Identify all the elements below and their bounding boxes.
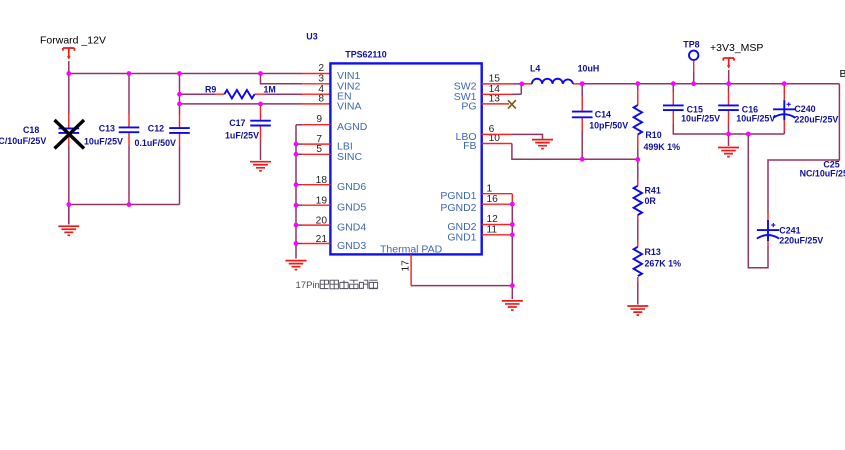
svg-text:B: B (840, 68, 845, 80)
resistor R13 (634, 242, 642, 283)
capacitor C15 (663, 84, 684, 124)
svg-text:13: 13 (489, 94, 501, 105)
svg-text:PGND2: PGND2 (440, 202, 476, 214)
svg-text:0R: 0R (645, 196, 657, 206)
ground under C16 (718, 148, 739, 157)
svg-text:16: 16 (487, 194, 499, 205)
svg-text:5: 5 (316, 144, 322, 155)
wire top VIN rail (69, 73, 302, 75)
svg-text:TPS62110: TPS62110 (345, 50, 387, 60)
no-stuff X over C18 (55, 120, 85, 149)
ground under AGND bus (286, 261, 307, 270)
svg-text:0.1uF/50V: 0.1uF/50V (135, 138, 177, 148)
capacitor C16 (718, 84, 739, 134)
wire caps bottom rail (673, 123, 784, 134)
capacitor C240 (polarized) (773, 84, 795, 134)
svg-text:17: 17 (401, 260, 412, 272)
wire GND6 stub (296, 184, 303, 186)
svg-text:3: 3 (318, 74, 324, 85)
svg-text:1uF/25V: 1uF/25V (225, 130, 259, 140)
capacitor C14 (572, 84, 593, 160)
wire C12 bottom (179, 146, 181, 205)
pin 6 LBO (482, 133, 512, 135)
wire R10 to R41 (637, 160, 639, 181)
pin numbers left (316, 63, 328, 245)
svg-text:C14: C14 (595, 110, 611, 120)
pin numbers right (487, 74, 501, 236)
wire R13 to ground (637, 282, 639, 305)
svg-text:NC/10uF/25V: NC/10uF/25V (0, 136, 46, 146)
svg-text:1M: 1M (264, 85, 276, 95)
svg-text:TP8: TP8 (683, 39, 699, 49)
svg-text:267K 1%: 267K 1% (645, 259, 682, 269)
wire bottom-left ground rail (69, 204, 180, 206)
svg-text:PG: PG (461, 100, 476, 112)
wire R9 to EN (266, 93, 302, 95)
svg-text:+3V3_MSP: +3V3_MSP (710, 42, 763, 54)
wire PGND bus (511, 204, 513, 299)
pin names right (440, 80, 476, 243)
pin 8 VINA (302, 103, 330, 105)
svg-text:PGND1: PGND1 (440, 190, 476, 202)
svg-text:17Pin: 17Pin (296, 280, 320, 291)
svg-text:220uF/25V: 220uF/25V (779, 236, 823, 246)
wire GND5 stub (296, 204, 303, 206)
capacitor C18 (59, 114, 80, 146)
no-connect X on PG (508, 100, 516, 108)
svg-text:Forward _12V: Forward _12V (40, 34, 106, 46)
pin 11 GND1 (482, 234, 513, 236)
pin 3 VIN2 (302, 83, 330, 85)
wire C13 bottom (128, 146, 130, 205)
svg-text:10uH: 10uH (578, 64, 600, 74)
svg-text:GND1: GND1 (447, 231, 476, 243)
resistor R41 (634, 181, 642, 221)
svg-text:GND6: GND6 (337, 181, 366, 193)
ground under C17 (250, 162, 271, 171)
ground under C18 rail (58, 226, 79, 235)
pin 1 PGND1 (482, 194, 513, 205)
pin 19 GND5 (303, 204, 331, 206)
wire C17 to ground (260, 139, 262, 160)
wire LBI stub (296, 143, 303, 145)
pin names left (337, 70, 368, 252)
wire C13 column upper (128, 74, 130, 115)
svg-text:10uF/25V: 10uF/25V (736, 113, 775, 123)
svg-text:C17: C17 (229, 118, 245, 128)
svg-text:11: 11 (487, 225, 498, 236)
svg-text:R10: R10 (645, 130, 661, 140)
wire AGND bus (296, 125, 303, 259)
svg-text:R9: R9 (205, 85, 216, 95)
pin 15 SW2 (482, 83, 513, 85)
wire LBO to ground (512, 134, 543, 139)
wire C18 bottom (68, 146, 70, 224)
pin 5 SINC (303, 153, 331, 155)
capacitor C12 (169, 114, 190, 146)
svg-text:Thermal PAD: Thermal PAD (380, 244, 443, 256)
ground under R13 (627, 306, 648, 315)
svg-text:10uF/25V: 10uF/25V (84, 137, 123, 147)
svg-text:NC/10uF/25V: NC/10uF/25V (800, 169, 845, 179)
svg-text:C241: C241 (779, 225, 800, 235)
wire SINC stub (296, 153, 303, 155)
pin 4 EN (302, 93, 330, 95)
wire output rail (582, 83, 839, 85)
pin 18 GND6 (303, 184, 331, 186)
power symbol +3V3_MSP (723, 58, 734, 84)
svg-text:15: 15 (489, 74, 501, 85)
svg-text:C12: C12 (148, 124, 164, 134)
wire R9 row (180, 93, 216, 95)
resistor R10 (634, 84, 642, 160)
wire GND3 stub (296, 243, 303, 245)
pin 20 GND4 (303, 224, 331, 226)
svg-text:U3: U3 (306, 32, 317, 42)
power symbol Forward _12V (63, 48, 74, 60)
svg-text:1: 1 (487, 183, 493, 194)
pin 2 VIN1 (302, 73, 330, 75)
resistor R9 (215, 90, 266, 98)
pin 10 FB (482, 143, 512, 145)
wire thermal pad to bus (411, 285, 512, 287)
pin 7 LBI (303, 143, 331, 145)
wire Forward_12V vertical into rail (68, 61, 70, 114)
wire B branch down right edge (768, 84, 839, 214)
IC U3 TPS62110 body (330, 63, 481, 254)
svg-text:220uF/25V: 220uF/25V (794, 114, 838, 124)
pin 13 PG (482, 103, 509, 105)
svg-text:GND5: GND5 (337, 202, 366, 214)
pin 14 SW1 (482, 93, 513, 95)
wire C16 to ground (728, 134, 730, 146)
capacitor C17 (250, 104, 271, 139)
wire C12/R9 column upper (179, 74, 181, 115)
svg-text:8: 8 (318, 94, 324, 105)
svg-text:FB: FB (463, 140, 476, 152)
wire C18 to ground (68, 205, 70, 225)
svg-text:AGND: AGND (337, 121, 368, 133)
svg-text:9: 9 (316, 114, 322, 125)
svg-text:10pF/50V: 10pF/50V (589, 121, 628, 131)
wire C241 return loop (748, 134, 768, 268)
ground under PGND bus (502, 301, 523, 310)
test point TP8 (689, 51, 698, 84)
inductor L4 (522, 79, 582, 84)
svg-text:VINA: VINA (337, 100, 362, 112)
wire VIN2 jog from rail (261, 74, 303, 84)
svg-text:C18: C18 (23, 125, 39, 135)
svg-text:C240: C240 (794, 104, 815, 114)
pin 21 GND3 (303, 243, 331, 245)
wire SW1/SW2 tie (512, 84, 522, 94)
wire FB to divider (512, 144, 638, 160)
pin 12 GND2 (482, 224, 513, 226)
svg-text:C13: C13 (99, 124, 115, 134)
svg-text:R13: R13 (645, 247, 661, 257)
capacitor C241 (polarized) (757, 214, 779, 247)
pin 16 PGND2 (482, 203, 513, 205)
wire R41 to R13 (637, 220, 639, 242)
capacitor C13 (119, 114, 140, 146)
svg-text:499K 1%: 499K 1% (644, 142, 681, 152)
pin 9 AGND (303, 124, 331, 126)
svg-text:10uF/25V: 10uF/25V (681, 113, 720, 123)
wire VINA row (180, 103, 303, 105)
svg-text:GND3: GND3 (337, 240, 366, 252)
wire GND4 stub (296, 224, 303, 226)
ground at LBO (532, 140, 553, 149)
pin 17 thermal pad lead (410, 254, 412, 285)
svg-text:L4: L4 (530, 64, 540, 74)
svg-text:SINC: SINC (337, 151, 363, 163)
svg-text:R41: R41 (645, 186, 661, 196)
svg-text:GND4: GND4 (337, 222, 366, 234)
